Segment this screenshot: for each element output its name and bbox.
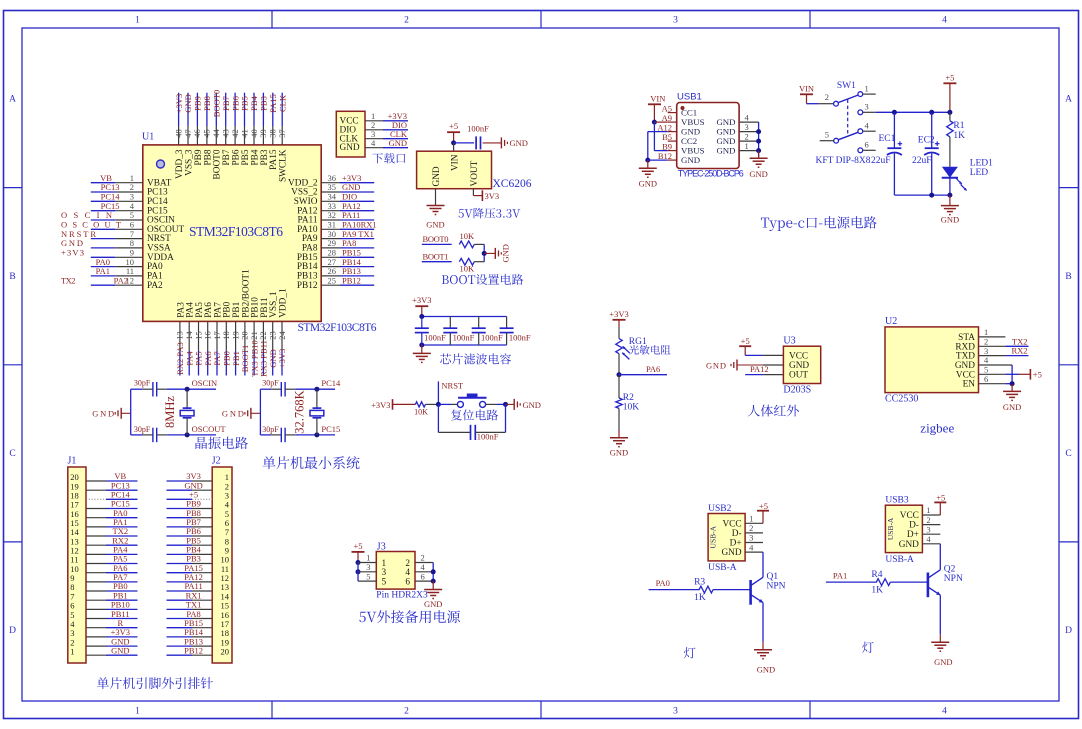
svg-text:GND: GND xyxy=(899,540,919,550)
svg-text:C: C xyxy=(9,449,15,459)
caption 5V external backup power xyxy=(359,610,460,623)
USB1 left pin B5 stub xyxy=(662,132,677,142)
svg-text:GND: GND xyxy=(389,138,407,148)
svg-text:zigbee: zigbee xyxy=(920,421,954,436)
svg-text:1K: 1K xyxy=(871,586,883,596)
svg-text:PA1: PA1 xyxy=(833,571,847,581)
svg-text:GND: GND xyxy=(789,361,809,371)
svg-text:VIN: VIN xyxy=(451,154,461,171)
U1 top pin 40 PB4 wire+label xyxy=(249,93,261,166)
svg-text:30pF: 30pF xyxy=(262,425,279,434)
power port +5 typec xyxy=(943,72,956,112)
capacitor 30pF top xyxy=(260,379,317,397)
svg-text:GND: GND xyxy=(523,400,541,410)
push button reset xyxy=(457,394,486,407)
svg-text:D: D xyxy=(1065,626,1072,636)
svg-text:GND: GND xyxy=(941,215,959,225)
svg-text:30pF: 30pF xyxy=(134,425,151,434)
svg-text:USB-A: USB-A xyxy=(708,563,737,573)
J1 pin 16 wire+label PA0 xyxy=(70,508,137,519)
USB2 pin 1 stub xyxy=(745,514,763,524)
USB2 pin 4 stub xyxy=(745,542,763,552)
U1 right pin 33 PA12 wire+label xyxy=(297,201,374,216)
U1 top pin 47 VSS_3 wire+label xyxy=(183,93,195,176)
power port +5 USB2 xyxy=(757,501,769,523)
sensor U3 body D203S xyxy=(783,336,820,396)
U1 left pin 6 OSCOUT wire+label xyxy=(61,220,185,235)
svg-text:A: A xyxy=(9,95,16,105)
download port pin 1 wire+label +3V3 xyxy=(365,111,408,121)
U1 left pin 8 VSSA wire+label xyxy=(61,238,171,253)
power port +3V3 filter bank xyxy=(412,295,431,316)
J3 right pins wires xyxy=(415,553,436,584)
ground Q2 emitter xyxy=(931,595,952,667)
U1 top pin 48 VDD_3 wire+label xyxy=(173,93,185,179)
capacitor 100nF reset branch xyxy=(438,404,505,441)
svg-text:VOUT: VOUT xyxy=(470,160,480,186)
svg-text:A: A xyxy=(1065,95,1072,105)
svg-text:GND: GND xyxy=(749,169,767,179)
U1 top pin 42 PB6 wire+label xyxy=(230,93,242,166)
module U2 CC2530 body xyxy=(885,316,979,405)
caption 5V step down 3.3V xyxy=(459,208,521,219)
node junction at regulator VIN xyxy=(451,140,456,145)
U1 bottom pin 24 VDD_1 wire+label xyxy=(277,288,289,375)
J2 pin 15 wire+label TX1 xyxy=(167,600,230,611)
U1 left pin 9 VDDA wire+label xyxy=(61,248,174,263)
svg-text:GND: GND xyxy=(92,409,114,419)
U1 bottom pin 15 PA5 wire+label xyxy=(193,302,205,376)
svg-text:1: 1 xyxy=(135,707,140,717)
svg-text:RX2: RX2 xyxy=(1011,346,1027,356)
capacitor EC2 22uF xyxy=(912,112,939,195)
svg-text:2: 2 xyxy=(404,707,409,717)
svg-text:3V3: 3V3 xyxy=(485,191,500,201)
J2 pin 4 wire+label PB9 xyxy=(167,499,230,510)
svg-text:100nF: 100nF xyxy=(509,332,531,342)
svg-text:OSCOUT: OSCOUT xyxy=(192,424,227,434)
U1 left pin 12 PA2 wire+label xyxy=(61,275,163,290)
U1 left pin 5 OSCIN wire+label xyxy=(61,210,175,225)
wire button to right node xyxy=(486,402,508,407)
U1 top pin 43 PB7 wire+label xyxy=(221,93,233,166)
connector J1 header body xyxy=(68,456,87,664)
svg-text:4: 4 xyxy=(942,16,947,26)
U1 right pin 31 PA10 wire+label xyxy=(297,220,376,235)
U1 left pin 4 PC15 wire+label xyxy=(91,201,168,216)
connector J2 header body xyxy=(212,456,232,664)
USB2 pin 2 stub xyxy=(745,523,763,533)
caption zigbee xyxy=(920,421,954,436)
svg-text:USB-A: USB-A xyxy=(885,555,914,565)
svg-text:3: 3 xyxy=(745,122,749,132)
J2 pin 8 wire+label PB5 xyxy=(167,535,230,546)
svg-text:PC15: PC15 xyxy=(321,424,340,434)
pin VOUT stub + 3V3 bar port xyxy=(473,189,499,201)
J2 pin 19 wire+label PB13 xyxy=(167,636,230,647)
J1 pin 11 wire+label PA5 xyxy=(70,554,137,565)
connector USB1 body xyxy=(677,92,744,179)
ground right of USB1 xyxy=(749,151,767,179)
ground J3 xyxy=(424,581,442,609)
svg-text:2: 2 xyxy=(745,131,749,141)
svg-text:VDD_1: VDD_1 xyxy=(278,288,288,318)
U1 top pin 46 PB9 wire+label xyxy=(192,93,204,166)
U1 bottom pin 20 PB2/BOOT1 wire+label xyxy=(240,269,252,376)
svg-text:+5: +5 xyxy=(759,501,768,511)
svg-text:PA2: PA2 xyxy=(147,281,163,291)
U1 right pin 36 VDD_2 wire+label xyxy=(288,173,374,188)
svg-text:J3: J3 xyxy=(377,541,386,552)
svg-text:PB9: PB9 xyxy=(193,96,203,111)
svg-text:8MHz: 8MHz xyxy=(163,396,177,428)
svg-text:OUT: OUT xyxy=(789,371,808,381)
wire VIN node to cap xyxy=(454,142,474,144)
svg-text:1K: 1K xyxy=(953,131,965,141)
caption BOOT setting circuit xyxy=(442,274,523,285)
node left of button xyxy=(436,402,457,407)
svg-text:R4: R4 xyxy=(871,570,882,580)
caption MCU pin breakout headers xyxy=(97,677,213,689)
net label NRST wire xyxy=(438,381,464,405)
resistor R2 10K xyxy=(616,375,640,430)
J1 pin 6 wire+label PB10 xyxy=(70,600,137,611)
net label BOOT1 wire xyxy=(422,252,452,262)
caption MCU minimum system xyxy=(262,456,359,469)
svg-text:PA2: PA2 xyxy=(114,275,128,285)
capacitor 100nF filter 3 xyxy=(472,317,503,346)
svg-text:4: 4 xyxy=(926,534,931,544)
J2 pin 6 wire+label PB7 xyxy=(167,517,230,528)
J1 pin 15 wire+label PA1 xyxy=(70,517,137,528)
U1 right pin 26 PB13 wire+label xyxy=(297,266,374,281)
ground Q1 emitter xyxy=(754,603,775,675)
svg-text:USB-A: USB-A xyxy=(709,525,718,548)
power port GND right of cap xyxy=(483,137,528,148)
caption lamp left xyxy=(684,647,696,658)
svg-text:+3V3: +3V3 xyxy=(609,309,628,319)
wire USB1 right gnd bus xyxy=(756,122,761,157)
svg-text:SWCLK: SWCLK xyxy=(279,149,289,182)
capacitor 100nF at regulator input xyxy=(467,123,489,149)
regulator U? XC6206 body xyxy=(417,151,532,190)
USB1 left pin A9 stub xyxy=(662,113,677,123)
svg-text:GND: GND xyxy=(501,244,511,262)
svg-text:PA0: PA0 xyxy=(656,578,670,588)
U1 bottom pin 16 PA6 wire+label xyxy=(203,302,215,376)
U1 top pin 44 BOOT0 wire+label xyxy=(211,90,223,180)
U1 right pin 27 PB14 wire+label xyxy=(297,257,374,272)
wire VIN to VBUS pins A9 B9 xyxy=(652,120,668,151)
svg-text:3: 3 xyxy=(749,533,753,543)
svg-text:GND: GND xyxy=(716,117,735,127)
J2 pin 12 wire+label PA12 xyxy=(167,572,230,583)
U2 pin 4 GND wire xyxy=(979,355,1013,384)
wire joining BOOT resistors xyxy=(482,244,487,261)
U2 pin 6 EN wire xyxy=(979,374,1015,386)
svg-text:100nF: 100nF xyxy=(467,123,489,133)
svg-text:GND: GND xyxy=(721,548,741,558)
capacitor 100nF filter 2 xyxy=(443,317,474,346)
wire USB2 GND pin to collector xyxy=(762,552,764,577)
connector download port box xyxy=(336,111,365,157)
U1 top pin 41 PB5 wire+label xyxy=(239,93,251,166)
svg-text:3: 3 xyxy=(865,102,869,112)
J2 pin 13 wire+label PA11 xyxy=(167,581,230,592)
svg-text:+5: +5 xyxy=(449,121,458,131)
wire cap to GND port xyxy=(0,0,1,1)
svg-text:100nF: 100nF xyxy=(481,332,503,342)
svg-text:2: 2 xyxy=(749,523,753,533)
USB3 pin 2 stub xyxy=(922,515,940,525)
svg-text:A12: A12 xyxy=(657,122,672,132)
svg-text:46: 46 xyxy=(192,129,202,138)
U1 bottom pin 17 PA7 wire+label xyxy=(212,302,224,376)
U1 right pin 35 VSS_2 wire+label xyxy=(291,182,374,197)
power port +3V3 photoresistor xyxy=(609,309,628,327)
svg-text:1K: 1K xyxy=(694,593,706,603)
svg-text:100nF: 100nF xyxy=(453,332,475,342)
svg-text:STM32F103C8T6: STM32F103C8T6 xyxy=(189,224,283,239)
U1 right pin 28 PB15 wire+label xyxy=(297,248,374,263)
svg-text:5: 5 xyxy=(825,130,829,140)
svg-text:BOOT0: BOOT0 xyxy=(423,234,449,244)
svg-text:100nF: 100nF xyxy=(424,332,446,342)
J1 pin 14 wire+label TX2 xyxy=(70,526,137,537)
connector USB2 body xyxy=(708,504,745,573)
svg-text:GND: GND xyxy=(432,166,442,186)
J1 pin 9 wire+label PA7 xyxy=(70,572,137,583)
USB1 left pin B9 stub xyxy=(662,141,677,151)
U2 pin 5 VCC wire +5 port xyxy=(979,365,1042,380)
J2 pin 3 wire+label +5 xyxy=(167,490,230,501)
svg-text:RG1: RG1 xyxy=(629,337,647,347)
svg-text:+3V3: +3V3 xyxy=(371,400,390,410)
switch SW1 xyxy=(807,81,876,166)
svg-text:C: C xyxy=(1065,449,1071,459)
U1 right pin 32 PA11 wire+label xyxy=(298,210,375,225)
svg-text:1: 1 xyxy=(926,505,930,515)
svg-text:37: 37 xyxy=(277,129,287,138)
crystal 8MHz xyxy=(163,389,194,435)
svg-text:VCC: VCC xyxy=(900,511,919,521)
svg-text:+5: +5 xyxy=(1033,370,1042,380)
power port +5 above regulator xyxy=(447,121,460,143)
wire bottom to net label xyxy=(314,424,340,437)
svg-text:5: 5 xyxy=(366,571,370,581)
U1 left pin 10 PA0 wire+label xyxy=(91,257,163,272)
svg-text:1: 1 xyxy=(865,83,869,93)
svg-text:CC2: CC2 xyxy=(681,136,697,146)
svg-text:STM32F103C8T6: STM32F103C8T6 xyxy=(298,322,377,334)
svg-text:22uF: 22uF xyxy=(912,156,932,166)
svg-text:GND: GND xyxy=(510,138,528,148)
svg-text:1: 1 xyxy=(70,646,74,656)
svg-text:R3: R3 xyxy=(694,577,705,587)
svg-text:USB1: USB1 xyxy=(677,92,702,103)
svg-text:B9: B9 xyxy=(662,141,672,151)
svg-text:Pin HDR2X3: Pin HDR2X3 xyxy=(376,591,428,601)
svg-text:EC1: EC1 xyxy=(879,134,896,144)
svg-text:6: 6 xyxy=(984,374,988,384)
J1 pin 12 wire+label PA4 xyxy=(70,545,137,556)
USB1 right pin 4 stub xyxy=(739,112,759,122)
capacitor 100nF filter 4 xyxy=(500,317,531,346)
svg-text:PB12: PB12 xyxy=(342,275,361,285)
U1 top pin 39 PB3 wire+label xyxy=(258,93,270,166)
svg-text:3: 3 xyxy=(926,524,930,534)
crystal left vertical wire xyxy=(259,389,261,435)
J2 pin 5 wire+label PB8 xyxy=(167,508,230,519)
svg-text:GND: GND xyxy=(1003,402,1021,412)
U1 bottom pin 23 VSS_1 wire+label xyxy=(268,291,280,375)
svg-text:GND: GND xyxy=(934,657,952,667)
U1 right pin 25 PB12 wire+label xyxy=(297,275,374,290)
svg-text:XC6206: XC6206 xyxy=(493,178,532,190)
LED1 diode xyxy=(942,158,993,195)
svg-text:32.768K: 32.768K xyxy=(293,390,307,433)
svg-text:3: 3 xyxy=(673,707,678,717)
svg-text:R1: R1 xyxy=(953,121,964,131)
USB3 pin 3 stub xyxy=(922,524,940,534)
power port GND left of U3 xyxy=(706,360,783,371)
J2 pin 7 wire+label PB6 xyxy=(167,526,230,537)
caption xiazaikou xyxy=(372,153,405,164)
power port VIN bar typec xyxy=(648,94,665,123)
svg-text:+5: +5 xyxy=(741,336,750,346)
svg-text:LED1: LED1 xyxy=(970,158,993,168)
svg-text:VCC: VCC xyxy=(722,519,741,529)
U1 bottom pin 13 PA3 wire+label xyxy=(175,302,187,376)
resistor 10K BOOT0 xyxy=(459,231,484,248)
svg-text:10K: 10K xyxy=(623,402,640,412)
wire GND pins A12 B12 xyxy=(645,132,667,163)
svg-text:GND: GND xyxy=(111,645,129,655)
USB3 pin 1 stub xyxy=(922,505,940,515)
svg-text:4: 4 xyxy=(942,707,947,717)
svg-text:VBUS: VBUS xyxy=(681,117,705,127)
svg-text:GND: GND xyxy=(716,146,735,156)
svg-text:R2: R2 xyxy=(623,393,634,403)
svg-text:4: 4 xyxy=(749,542,754,552)
pin GND stub + ground xyxy=(426,189,444,230)
svg-text:PC14: PC14 xyxy=(321,378,341,388)
crystal left vertical wire xyxy=(130,389,132,435)
svg-text:USB-A: USB-A xyxy=(886,517,895,540)
J2 pin 14 wire+label RX1 xyxy=(167,590,230,601)
resistor 10K reset xyxy=(414,402,438,417)
J2 pin 18 wire+label PB14 xyxy=(167,627,230,638)
ground for filter bank xyxy=(413,345,431,362)
svg-text:B5: B5 xyxy=(662,132,672,142)
svg-text:EN: EN xyxy=(963,380,976,390)
svg-text:2: 2 xyxy=(926,515,930,525)
svg-text:GND: GND xyxy=(426,220,444,230)
svg-text:PB9: PB9 xyxy=(194,149,204,165)
svg-text:PA12: PA12 xyxy=(750,364,769,374)
svg-text:+5: +5 xyxy=(936,493,945,503)
svg-text:KFT DIP-8X8: KFT DIP-8X8 xyxy=(816,156,871,166)
power port +5 USB3 xyxy=(934,493,946,515)
svg-text:OSCIN: OSCIN xyxy=(192,378,218,388)
resistor R3 1K base xyxy=(649,577,751,603)
svg-text:+3V3: +3V3 xyxy=(61,248,84,258)
svg-text:10K: 10K xyxy=(459,231,475,241)
svg-text:GND: GND xyxy=(340,143,360,153)
U2 pin 2 RXD wire TX2 xyxy=(979,336,1029,346)
U1 right pin 30 PA9 wire+label xyxy=(302,229,374,244)
svg-text:D203S: D203S xyxy=(783,385,811,396)
J2 pin 20 wire+label PB12 xyxy=(167,645,230,656)
ground typec power xyxy=(941,195,959,224)
svg-text:+3V3: +3V3 xyxy=(277,349,287,368)
svg-text:41: 41 xyxy=(239,129,249,138)
J1 pin 1 wire+label GND xyxy=(70,645,137,656)
svg-text:1: 1 xyxy=(135,16,140,26)
svg-text:D+: D+ xyxy=(730,539,742,549)
svg-text:J2: J2 xyxy=(212,456,221,467)
svg-text:30pF: 30pF xyxy=(134,379,151,388)
wire bottom to net label xyxy=(185,424,227,437)
svg-text:B: B xyxy=(1065,272,1071,282)
caption chip filter capacitors xyxy=(440,353,511,364)
USB1 left pin A5 stub xyxy=(662,103,677,113)
svg-text:30pF: 30pF xyxy=(262,379,279,388)
svg-text:J1: J1 xyxy=(68,456,77,467)
wire top to net label xyxy=(185,378,218,392)
U2 pin 3 TXD wire RX2 xyxy=(979,346,1029,356)
U1 bottom pin 21 PB10 wire+label xyxy=(249,297,261,377)
svg-text:22uF: 22uF xyxy=(871,156,891,166)
connector J3 body xyxy=(376,541,428,600)
power port +3V3 bar reset xyxy=(371,399,415,410)
pin VIN stub xyxy=(453,143,455,151)
resistor 10K BOOT1 xyxy=(459,258,484,273)
wire USB3 GND pin to collector xyxy=(939,544,941,570)
ground left of USB1 xyxy=(639,160,657,188)
capacitor 30pF bottom xyxy=(131,425,187,442)
J3 left pins wires xyxy=(356,553,377,582)
svg-text:VIN: VIN xyxy=(650,94,665,104)
svg-text:GND: GND xyxy=(610,448,628,458)
J1 pin 8 wire+label PB0 xyxy=(70,581,137,592)
net label BOOT0 wire xyxy=(422,234,452,244)
USB1 left pin A12 stub xyxy=(657,122,676,132)
U1 bottom pin 19 PB1 wire+label xyxy=(230,301,242,375)
svg-text:LED: LED xyxy=(970,168,989,178)
svg-text:GND: GND xyxy=(681,127,700,137)
svg-text:GND: GND xyxy=(757,664,775,674)
power port +5 PIR xyxy=(739,336,751,355)
svg-text:USB3: USB3 xyxy=(885,496,908,506)
svg-text:1: 1 xyxy=(745,141,749,151)
svg-text:CC2530: CC2530 xyxy=(885,394,918,405)
caption human infrared xyxy=(748,405,799,417)
svg-text:GND: GND xyxy=(706,360,726,370)
svg-text:GND: GND xyxy=(222,409,244,419)
capacitor EC1 22uF xyxy=(871,112,902,195)
svg-text:+5: +5 xyxy=(945,72,954,82)
svg-text:NPN: NPN xyxy=(767,582,786,592)
svg-text:B: B xyxy=(9,272,15,282)
svg-text:PB5: PB5 xyxy=(241,149,251,165)
svg-text:GND: GND xyxy=(716,136,735,146)
J2 pin 9 wire+label PB4 xyxy=(167,545,230,556)
svg-text:NRST: NRST xyxy=(441,381,464,391)
power port +5 J3 xyxy=(352,541,365,563)
svg-text:VCC: VCC xyxy=(789,351,808,361)
ground port left of crystal xyxy=(92,408,131,419)
